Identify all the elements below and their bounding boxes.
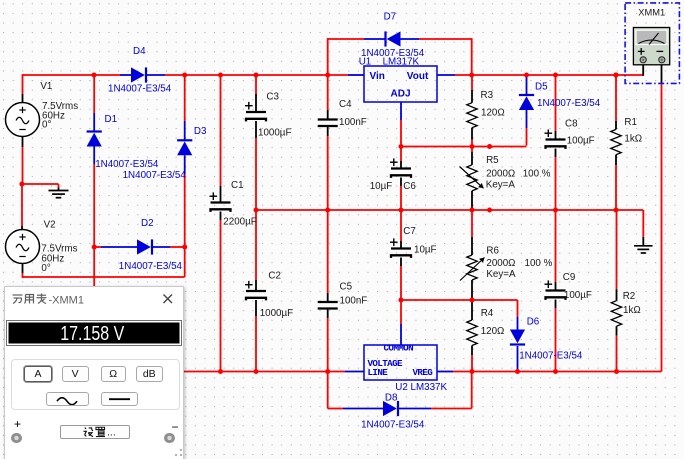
svg-text:R6: R6 [486, 246, 499, 257]
svg-text:C2: C2 [268, 271, 281, 282]
svg-text:100µF: 100µF [564, 290, 592, 301]
svg-text:V2: V2 [44, 219, 56, 230]
svg-text:...: ... [107, 427, 116, 439]
svg-text:1N4007-E3/54: 1N4007-E3/54 [95, 159, 159, 170]
svg-text:120Ω: 120Ω [481, 107, 505, 118]
svg-text:1N4007-E3/54: 1N4007-E3/54 [123, 170, 187, 181]
svg-text:2200µF: 2200µF [223, 217, 256, 228]
svg-text:C8: C8 [565, 119, 578, 130]
svg-text:D8: D8 [385, 393, 398, 404]
svg-text:1kΩ: 1kΩ [624, 134, 642, 145]
svg-text:10µF: 10µF [414, 245, 437, 256]
svg-text:D3: D3 [194, 126, 207, 137]
svg-text:1N4007-E3/54: 1N4007-E3/54 [108, 84, 172, 95]
svg-text:Vin: Vin [370, 71, 385, 82]
svg-text:R1: R1 [624, 117, 637, 128]
svg-text:−: − [172, 420, 179, 434]
svg-text:100 %: 100 % [525, 258, 553, 269]
svg-text:-XMM1: -XMM1 [49, 294, 84, 306]
svg-text:Key=A: Key=A [486, 269, 516, 280]
svg-text:100nF: 100nF [339, 117, 367, 128]
svg-text:C7: C7 [403, 226, 416, 237]
svg-text:1N4007-E3/54: 1N4007-E3/54 [537, 98, 601, 109]
svg-text:Key=A: Key=A [486, 179, 516, 190]
svg-text:1N4007-E3/54: 1N4007-E3/54 [361, 48, 425, 59]
svg-text:D6: D6 [527, 317, 540, 328]
svg-text:1N4007-E3/54: 1N4007-E3/54 [119, 261, 183, 272]
svg-text:U2 LM337K: U2 LM337K [395, 382, 447, 393]
svg-text:2000Ω: 2000Ω [486, 168, 515, 179]
svg-text:0°: 0° [41, 263, 50, 274]
svg-text:Vout: Vout [407, 71, 429, 82]
svg-text:1000µF: 1000µF [260, 308, 293, 319]
svg-text:D1: D1 [105, 114, 118, 125]
svg-text:2000Ω: 2000Ω [486, 258, 515, 269]
svg-text:100 %: 100 % [523, 168, 551, 179]
svg-text:V1: V1 [40, 81, 52, 92]
svg-text:D5: D5 [535, 82, 548, 93]
svg-text:120Ω: 120Ω [481, 326, 505, 337]
svg-text:+: + [14, 417, 21, 431]
svg-text:1000µF: 1000µF [258, 128, 291, 139]
svg-text:C3: C3 [266, 92, 279, 103]
svg-text:D2: D2 [141, 218, 154, 229]
svg-text:1N4007-E3/54: 1N4007-E3/54 [519, 350, 583, 361]
svg-text:100nF: 100nF [340, 296, 368, 307]
svg-text:R5: R5 [486, 155, 499, 166]
svg-text:0°: 0° [42, 119, 51, 130]
svg-text:D7: D7 [384, 12, 397, 23]
svg-text:1N4007-E3/54: 1N4007-E3/54 [361, 420, 425, 431]
svg-text:ADJ: ADJ [391, 89, 411, 100]
svg-text:XMM1: XMM1 [638, 8, 665, 18]
svg-text:100µF: 100µF [567, 135, 595, 146]
svg-text:D4: D4 [133, 46, 146, 57]
svg-text:VREG: VREG [413, 367, 434, 378]
svg-text:R2: R2 [623, 291, 636, 302]
svg-text:R3: R3 [481, 90, 494, 101]
svg-text:LINE: LINE [368, 367, 389, 378]
svg-text:10µF: 10µF [370, 181, 393, 192]
svg-text:1kΩ: 1kΩ [623, 305, 641, 316]
svg-text:C4: C4 [339, 99, 352, 110]
svg-text:C9: C9 [563, 272, 576, 283]
svg-text:COMMON: COMMON [384, 343, 414, 354]
svg-text:C6: C6 [403, 181, 416, 192]
svg-text:R4: R4 [481, 308, 494, 319]
svg-text:C1: C1 [231, 180, 244, 191]
svg-text:C5: C5 [340, 281, 353, 292]
